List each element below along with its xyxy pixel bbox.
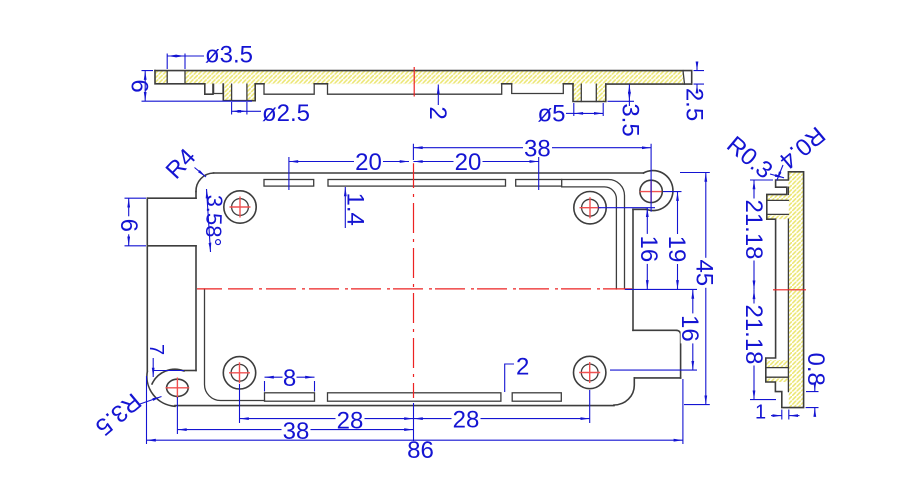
dim R0.4 text	[774, 121, 830, 174]
dim 2.5 extension lines	[694, 71, 705, 85]
red centerline vertical	[413, 163, 415, 398]
dim 2.5 line with outside arrows	[696, 62, 698, 71]
bottom slot 3	[512, 393, 561, 401]
dim 6 text	[126, 79, 153, 92]
dim 1 arrows outside	[771, 415, 782, 417]
svg-text:ø3.5: ø3.5	[205, 42, 253, 69]
dim 45 extensions	[680, 173, 710, 405]
hole top-left outer	[224, 191, 256, 223]
top slot 2	[328, 180, 506, 187]
dim phi5 line	[574, 112, 603, 114]
svg-text:1: 1	[755, 402, 766, 424]
dim 0.8 text	[802, 353, 829, 386]
top slot 1	[264, 180, 314, 187]
dim phi5 extension lines	[574, 103, 603, 116]
dim R4 text	[161, 144, 202, 185]
svg-text:20: 20	[355, 149, 382, 176]
dim 7 text	[145, 344, 167, 355]
dim 38 top extensions	[413, 144, 651, 212]
svg-text:38: 38	[283, 418, 310, 445]
hole phi3.5 edges	[167, 71, 185, 84]
plate left edge	[155, 71, 205, 84]
dim 7 leader	[152, 358, 154, 377]
side top step white	[776, 180, 789, 187]
dim 19 extension	[663, 191, 682, 193]
svg-text:2: 2	[424, 106, 451, 119]
dim 6 extension lines	[142, 71, 253, 102]
dim 3.5 extension line	[608, 100, 635, 102]
inner rim contour left lower	[205, 289, 265, 401]
hole phi5 edges	[581, 84, 596, 101]
svg-text:2.5: 2.5	[681, 88, 708, 121]
ear lobe top arc	[152, 369, 184, 384]
dim 21.18 upper text	[740, 199, 767, 261]
dim 16 lower extension	[610, 369, 697, 371]
dim 38 top line	[413, 147, 651, 149]
dim 1.4 text	[342, 193, 369, 226]
hole phi2.5 white window	[232, 84, 247, 101]
dim 38 bottom text	[282, 422, 311, 440]
dim 8 extensions	[265, 381, 315, 392]
left edge lower	[195, 246, 197, 371]
hole top-right outer	[574, 192, 606, 224]
hole phi5 white window	[581, 84, 596, 102]
dim 19 line	[677, 192, 679, 290]
dim 28 left text	[336, 411, 365, 429]
dim 38 bottom line	[177, 429, 413, 431]
dim 28 left line	[240, 418, 414, 420]
top-right ear lobe arc	[643, 171, 673, 211]
dim phi2.5 extension lines	[232, 102, 247, 115]
bottom step left	[205, 84, 213, 94]
side bar inner edge lower	[787, 219, 789, 391]
svg-text:8: 8	[283, 365, 296, 392]
dim 6 line	[144, 71, 146, 102]
svg-text:3.5: 3.5	[617, 103, 644, 136]
svg-text:16: 16	[676, 315, 703, 342]
dim phi3.5 leader	[185, 55, 204, 57]
dim 3.58 text	[201, 194, 228, 246]
side lower boss hole lines	[766, 368, 789, 378]
ext line ear top blue	[154, 370, 185, 372]
dim 2 rib leader	[437, 85, 439, 106]
dim 20 second extension	[538, 157, 540, 190]
hole bottom-right inner	[581, 364, 598, 381]
dim 8 line	[265, 376, 315, 378]
right notch bottom	[634, 377, 680, 379]
svg-text:21.18: 21.18	[740, 199, 767, 259]
dim 28 left extensions	[240, 384, 414, 444]
dim 16 lower line	[692, 289, 694, 370]
red centerline of section	[413, 67, 415, 97]
rib B	[328, 84, 502, 94]
dim 38 top text	[523, 139, 552, 157]
dim 1.4 leader	[344, 187, 346, 228]
svg-text:20: 20	[455, 149, 482, 176]
dim 20 first text	[354, 153, 383, 171]
dim 0.8 line with outside arrows	[814, 383, 816, 392]
ear hole bottom-left	[167, 379, 189, 396]
dim 86 text	[406, 441, 435, 459]
plate bottom between boss and rib A	[255, 83, 264, 85]
svg-text:86: 86	[407, 437, 434, 464]
dim R3.5 text	[90, 387, 146, 440]
dim phi3.5 line	[167, 55, 185, 57]
red crosshair hole TL	[230, 197, 251, 218]
dim 6 tab text	[115, 216, 142, 234]
bottom edge	[175, 405, 614, 407]
dim R3.5 leader	[140, 397, 162, 405]
top-left corner R4	[196, 173, 214, 192]
right notch top	[633, 329, 677, 331]
plate section hatched body	[155, 71, 683, 85]
bottom slot 1	[265, 393, 315, 401]
rib C	[512, 84, 564, 94]
dim 20 second text	[454, 153, 483, 171]
rib A	[264, 84, 314, 94]
red crosshair hole BL	[229, 362, 250, 383]
dim R0.4 leader	[777, 165, 783, 181]
dim 45 text	[691, 258, 718, 288]
right notch cove	[614, 378, 634, 405]
red crosshair ear hole TR	[640, 181, 662, 202]
dim 28 right line	[414, 418, 590, 420]
hole bottom-right outer	[574, 356, 606, 388]
plate bottom gap	[314, 83, 327, 85]
dim phi3.5 extension lines	[167, 54, 185, 70]
side outline	[766, 172, 804, 408]
side upper boss hole white	[767, 200, 789, 214]
dim 20 first extension	[288, 157, 290, 190]
dim 20 first line	[289, 161, 409, 163]
hole bottom-left outer	[223, 357, 255, 389]
red crosshair ear hole BL	[166, 378, 190, 399]
dim 3.5 line	[628, 84, 630, 101]
dim 1 extensions	[782, 410, 789, 420]
plate bottom gap2	[502, 83, 512, 85]
boss phi5 outline	[573, 84, 606, 101]
plate outline	[155, 71, 692, 85]
small rib tab	[214, 84, 223, 93]
dim 6 tab extensions	[125, 198, 147, 246]
hole top-right inner	[582, 199, 599, 216]
dim 3.58 leader line	[207, 189, 211, 252]
boss section phi5 hatched	[573, 84, 606, 101]
ear ledge top-right	[633, 208, 646, 210]
svg-text:2: 2	[516, 354, 529, 381]
svg-text:19: 19	[663, 236, 690, 263]
hole bottom-left inner	[231, 364, 248, 381]
side upper boss hatched	[767, 194, 789, 219]
svg-text:3.58°: 3.58°	[201, 194, 228, 246]
side red centerline	[773, 289, 806, 291]
red crosshair hole BR	[579, 362, 600, 383]
svg-text:38: 38	[524, 135, 551, 162]
outer outline top and corners	[214, 172, 644, 174]
plate right end step	[683, 71, 685, 85]
ear hole top-right	[640, 180, 662, 202]
left tab top	[148, 197, 196, 199]
hole phi2.5 edges	[232, 84, 247, 101]
side lower boss hatched	[766, 360, 789, 382]
dim 20 second line	[413, 161, 538, 163]
ledge into ear	[184, 370, 196, 372]
dim phi2.5 line	[232, 110, 247, 112]
dim 16 upper extensions	[598, 208, 697, 290]
dim R0.3 leader	[770, 174, 784, 178]
dim 86 extensions	[147, 376, 683, 444]
right notch outer edge	[677, 330, 681, 378]
dim 2 text	[424, 106, 451, 119]
svg-text:28: 28	[337, 408, 364, 435]
svg-text:21.18: 21.18	[740, 304, 767, 364]
right edge	[632, 209, 634, 330]
dim 45 line	[705, 173, 707, 405]
dim 28 right extension	[589, 390, 591, 423]
svg-text:45: 45	[691, 259, 718, 286]
svg-text:1.4: 1.4	[342, 193, 369, 226]
plate bottom to boss phi5	[563, 83, 573, 85]
ear outer lobe	[147, 372, 175, 407]
dim 21.18 lower line	[753, 290, 755, 400]
side bottom notch white	[782, 392, 789, 407]
svg-text:ø5: ø5	[537, 101, 565, 128]
inner rim contour B right	[562, 187, 617, 289]
dim 21.18 lower extension	[750, 399, 776, 401]
red crosshair hole TR	[580, 197, 601, 218]
left flange edge	[146, 198, 148, 371]
top slot 3	[516, 180, 562, 187]
svg-text:7: 7	[145, 344, 167, 355]
dim 2 bottom leader	[505, 364, 514, 392]
dim 21.18 upper line	[753, 180, 755, 290]
dim 6 tab line	[128, 198, 130, 246]
dim phi5 leader	[566, 112, 574, 114]
boss phi2.5 outline	[223, 84, 255, 101]
dim 2.5 text	[681, 88, 708, 121]
dim 19 text	[663, 234, 690, 264]
svg-text:28: 28	[453, 407, 480, 434]
hole top-left inner	[232, 199, 249, 216]
dim 28 right text	[452, 411, 481, 429]
dim 16 upper line	[646, 208, 648, 290]
dim 86 line	[147, 439, 683, 441]
dim 16 lower text	[676, 313, 703, 343]
boss section phi2.5 hatched	[223, 84, 255, 101]
side bar hatched body	[788, 172, 803, 408]
side upper boss hole lines	[767, 200, 789, 214]
svg-text:0.8: 0.8	[802, 353, 829, 386]
left edge upper	[195, 192, 197, 199]
inner rim contour A right	[562, 180, 625, 290]
dim 16 upper text	[635, 234, 662, 264]
svg-text:ø2.5: ø2.5	[262, 100, 310, 127]
svg-text:16: 16	[635, 236, 662, 263]
dim 8 text	[283, 369, 297, 387]
hole phi3.5 white window	[167, 70, 185, 84]
dim 38 bottom extension	[176, 397, 178, 434]
svg-text:6: 6	[126, 79, 153, 92]
side bar inner edge upper	[787, 187, 789, 194]
dim 3.5 text	[617, 103, 644, 136]
dim R4 leader	[195, 168, 207, 178]
plate bottom right	[606, 83, 692, 85]
svg-text:6: 6	[115, 219, 142, 232]
dim R0.3 text	[721, 131, 777, 184]
bottom slot 2	[328, 393, 501, 401]
left tab bottom	[148, 245, 196, 247]
side lower boss hole white	[766, 368, 789, 378]
dim 0.8 extensions	[806, 392, 819, 408]
dim 21.18 upper extension	[750, 179, 773, 181]
dim 21.18 lower text	[740, 304, 767, 366]
dim phi2.5 leader	[247, 110, 261, 112]
red centerline horizontal	[197, 288, 632, 290]
